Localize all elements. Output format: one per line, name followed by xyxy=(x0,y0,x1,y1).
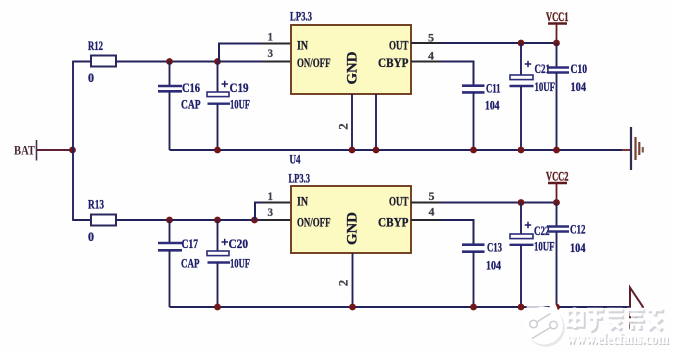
svg-text:CBYP: CBYP xyxy=(378,215,409,230)
junction rail2 C12 xyxy=(553,304,560,311)
wire OUT pin5 (bottom) xyxy=(411,202,557,204)
power VCC1 xyxy=(546,9,569,43)
junction C10/VCC1 xyxy=(553,40,560,47)
svg-text:104: 104 xyxy=(570,240,586,255)
junction BAT/trunk xyxy=(69,147,76,154)
svg-text:0: 0 xyxy=(88,229,94,244)
svg-text:IN: IN xyxy=(297,194,308,209)
arrow terminal (bottom right) xyxy=(630,288,643,327)
capacitor C12 xyxy=(547,203,586,308)
resistor R13 xyxy=(88,197,116,245)
svg-text:C10: C10 xyxy=(571,61,588,76)
wire pin stub ON/OFF top xyxy=(262,61,290,63)
svg-text:104: 104 xyxy=(485,98,500,113)
svg-text:C12: C12 xyxy=(570,222,586,237)
watermark url text xyxy=(567,331,670,349)
svg-text:C16: C16 xyxy=(182,80,200,95)
capacitor C21 polarized xyxy=(510,43,556,150)
wire pin stub IN bottom xyxy=(262,202,290,204)
regulator U4 LP3.3 (bottom) xyxy=(289,152,412,254)
svg-text:3: 3 xyxy=(268,205,274,219)
svg-text:10UF: 10UF xyxy=(230,256,250,271)
wire chip bottom second leg (top chip) xyxy=(375,94,377,150)
resistor R12 xyxy=(88,38,116,85)
wire pin stub IN top xyxy=(262,43,290,45)
svg-text:CAP: CAP xyxy=(181,97,201,112)
wire ground rail (bottom section) xyxy=(170,306,631,308)
svg-text:C13: C13 xyxy=(487,240,502,255)
svg-text:GND: GND xyxy=(345,51,361,84)
wire pin1 branch top xyxy=(219,44,291,62)
wire R13 left xyxy=(72,219,91,221)
svg-text:2: 2 xyxy=(336,280,351,287)
svg-text:OUT: OUT xyxy=(389,194,409,209)
svg-text:104: 104 xyxy=(571,79,587,94)
wire pin stub CBYP top xyxy=(412,61,440,63)
wire GND pin2 (top chip) xyxy=(351,94,353,150)
svg-text:10UF: 10UF xyxy=(535,79,556,94)
junction rail second leg xyxy=(373,147,380,154)
svg-text:C20: C20 xyxy=(229,236,249,251)
wire GND pin2 (bottom chip) xyxy=(352,253,354,307)
svg-text:ON/OFF: ON/OFF xyxy=(297,215,331,230)
junction rail2 pin2 xyxy=(349,304,356,311)
svg-text:GND: GND xyxy=(345,212,361,245)
capacitor C20 polarized xyxy=(207,220,250,307)
wire R12 left xyxy=(72,61,91,63)
junction C16 top xyxy=(166,58,173,65)
svg-text:LP3.3: LP3.3 xyxy=(289,171,311,186)
svg-text:2: 2 xyxy=(336,123,351,130)
wire OUT pin5 (top) xyxy=(411,42,557,44)
svg-text:3: 3 xyxy=(268,46,274,60)
wire ground rail (top section) xyxy=(170,149,623,151)
junction rail2 C20 xyxy=(214,304,221,311)
node BAT port xyxy=(14,140,37,161)
power VCC2 xyxy=(546,169,569,203)
junction rail C11 xyxy=(470,147,477,154)
svg-text:IN: IN xyxy=(297,38,308,53)
junction rail2 C13 xyxy=(470,304,477,311)
svg-text:VCC2: VCC2 xyxy=(546,169,569,184)
svg-text:1: 1 xyxy=(268,30,274,44)
junction rail C21 xyxy=(518,147,525,154)
wire R13 to chip pin3 xyxy=(116,219,291,221)
svg-text:CBYP: CBYP xyxy=(378,55,409,70)
junction C12/VCC2 xyxy=(553,199,560,206)
junction pin1 branch bottom xyxy=(251,217,258,224)
svg-text:4: 4 xyxy=(428,49,434,63)
junction rail C10 xyxy=(553,147,560,154)
svg-text:VCC1: VCC1 xyxy=(546,9,569,24)
capacitor C22 polarized xyxy=(510,203,555,308)
junction rail2 C22 xyxy=(518,304,525,311)
capacitor C11 xyxy=(462,81,501,151)
wire R12 to chip pin3 xyxy=(116,61,291,63)
watermark logo disc xyxy=(525,297,565,347)
svg-text:R13: R13 xyxy=(88,197,104,212)
wire ground rail red tail xyxy=(622,149,630,151)
svg-text:C19: C19 xyxy=(230,80,249,95)
wire BAT to trunk xyxy=(37,149,73,151)
svg-text:1: 1 xyxy=(268,189,274,203)
svg-text:LP3.3: LP3.3 xyxy=(290,9,312,24)
svg-text:BAT: BAT xyxy=(14,143,35,158)
svg-text:ON/OFF: ON/OFF xyxy=(297,55,331,70)
capacitor C19 polarized xyxy=(207,62,250,151)
regulator LP3.3 (top) xyxy=(290,9,411,94)
junction C19 top xyxy=(214,58,221,65)
svg-text:10UF: 10UF xyxy=(534,239,555,254)
svg-text:C17: C17 xyxy=(182,236,199,251)
capacitor C17 xyxy=(158,220,200,307)
capacitor C16 xyxy=(158,62,201,151)
wire pin stub CBYP bottom xyxy=(412,219,440,221)
ground symbol xyxy=(631,127,643,170)
svg-text:CAP: CAP xyxy=(181,256,200,271)
svg-text:0: 0 xyxy=(88,70,94,85)
svg-text:4: 4 xyxy=(429,205,435,219)
wire CBYP pin4 to C13 xyxy=(411,220,474,245)
svg-text:10UF: 10UF xyxy=(230,97,250,112)
svg-text:R12: R12 xyxy=(88,38,103,53)
junction rail pin2 xyxy=(349,147,356,154)
junction C21 top xyxy=(518,40,525,47)
wire pin stub OUT bottom xyxy=(412,202,440,204)
svg-text:OUT: OUT xyxy=(389,38,409,53)
svg-text:5: 5 xyxy=(429,189,435,203)
junction rail C19 xyxy=(214,147,221,154)
junction C20 top xyxy=(214,217,221,224)
junction C22 top xyxy=(518,199,525,206)
svg-text:C11: C11 xyxy=(486,81,501,96)
watermark chinese text xyxy=(567,307,664,332)
junction C17 top xyxy=(166,217,173,224)
capacitor C13 xyxy=(462,240,502,308)
capacitor C10 xyxy=(547,43,587,150)
wire trunk vertical xyxy=(72,62,74,221)
svg-text:www.elecfans.com: www.elecfans.com xyxy=(567,331,669,348)
wire pin stub ON/OFF bottom xyxy=(262,219,290,221)
wire CBYP pin4 to C11 xyxy=(411,62,474,86)
svg-text:U4: U4 xyxy=(290,152,301,167)
wire pin1 branch bottom xyxy=(255,203,291,221)
svg-text:104: 104 xyxy=(486,258,501,273)
wire pin stub OUT top xyxy=(412,42,440,44)
